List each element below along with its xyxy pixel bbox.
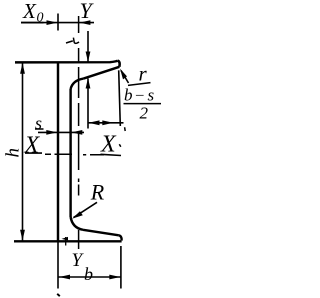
channel section outline: top flange top surface with left extension line — [15, 61, 118, 63]
channel section outline: web inner face — [69, 89, 71, 217]
dimension s: dimension line across web — [38, 131, 84, 133]
leader arrow for radius r at top toe — [121, 71, 129, 84]
svg-text:0: 0 — [37, 11, 44, 26]
dimension b: right-pointing arrowhead — [109, 275, 120, 280]
channel section outline: top flange toe tip — [118, 61, 120, 67]
svg-text:X: X — [22, 0, 37, 23]
label t (drawn as path, heavily slanted italic) — [66, 38, 79, 44]
dimension (b-s)/2: dimension line — [88, 122, 124, 124]
svg-text:2: 2 — [140, 103, 149, 122]
svg-text:Y: Y — [72, 250, 85, 271]
dimension t: lower arrow line below flange underside — [87, 79, 89, 129]
dimension X0: left extension tick (web outer face) — [57, 14, 59, 31]
svg-text:r: r — [139, 62, 148, 86]
svg-text:s: s — [148, 86, 155, 105]
dimension b: left extension line (web outer face extended) — [57, 241, 59, 288]
dimension X0: left-pointing arrowhead at Y axis — [79, 20, 90, 25]
channel section outline: top inner fillet R — [71, 79, 84, 89]
small artifact arrow on bottom surface near web — [62, 237, 69, 241]
channel section outline: top flange underside slope — [84, 67, 120, 79]
svg-text:s: s — [35, 113, 42, 133]
underline of label s — [35, 128, 44, 130]
svg-text:X: X — [100, 132, 117, 158]
underline of label r — [128, 83, 151, 86]
scan mark: comma right of right X label — [119, 144, 121, 147]
channel section outline: bottom flange inner surface slope — [83, 230, 119, 236]
svg-text:Y: Y — [80, 0, 95, 23]
underline of left label X — [25, 152, 42, 154]
dimension X0: dimension line at top — [21, 22, 94, 24]
dimension (b-s)/2: toe extension line — [119, 70, 121, 126]
dimension h: vertical dimension line at left — [22, 63, 24, 241]
dimension b: right extension line (bottom toe extended) — [120, 246, 122, 289]
dimension h: down arrowhead at bottom — [20, 230, 25, 241]
dimension X0: right-pointing arrowhead at web face — [47, 20, 58, 25]
dimension t: up arrowhead on flange underside — [86, 78, 91, 89]
svg-text:X: X — [24, 132, 41, 158]
dimension t: upper arrow line above top flange — [87, 31, 89, 62]
svg-text:R: R — [90, 180, 105, 205]
svg-text:–: – — [135, 87, 144, 103]
channel section outline: bottom flange toe tip — [119, 235, 122, 240]
dimension (b-s)/2: right-pointing arrowhead at toe extension — [102, 120, 113, 125]
leader arrow for radius R at bottom fillet — [74, 202, 98, 217]
channel section outline: bottom inner fillet R — [71, 217, 83, 230]
dimension b: left-pointing arrowhead — [59, 275, 70, 280]
dimension t: down arrowhead on top surface — [86, 52, 91, 63]
svg-text:b: b — [84, 264, 93, 284]
dimension (b-s)/2: left-pointing arrowhead at t line — [89, 120, 100, 125]
svg-text:h: h — [3, 148, 24, 158]
channel section outline: web outer face — [57, 62, 59, 241]
channel section outline: bottom surface with left extension line — [14, 240, 122, 242]
svg-text:b: b — [124, 86, 133, 105]
axis Y-Y vertical dash-dot centre line — [78, 16, 80, 249]
underline of right label X — [101, 154, 122, 155]
dimension s: right-pointing arrowhead at web outer face — [46, 130, 57, 135]
fraction bar of (b-s)/2 label — [124, 103, 162, 105]
dimension h: up arrowhead at top — [20, 63, 25, 74]
underline of label X0 — [21, 22, 44, 24]
dimension b: dimension line at bottom — [59, 276, 121, 278]
dimension s: left-pointing arrowhead at web inner face — [71, 130, 82, 135]
scan mark: small tick above right X label — [124, 127, 127, 131]
axis X-X horizontal dash-dot centre line — [45, 153, 104, 156]
scan mark: small fleck near bottom left of b extension — [57, 294, 60, 296]
